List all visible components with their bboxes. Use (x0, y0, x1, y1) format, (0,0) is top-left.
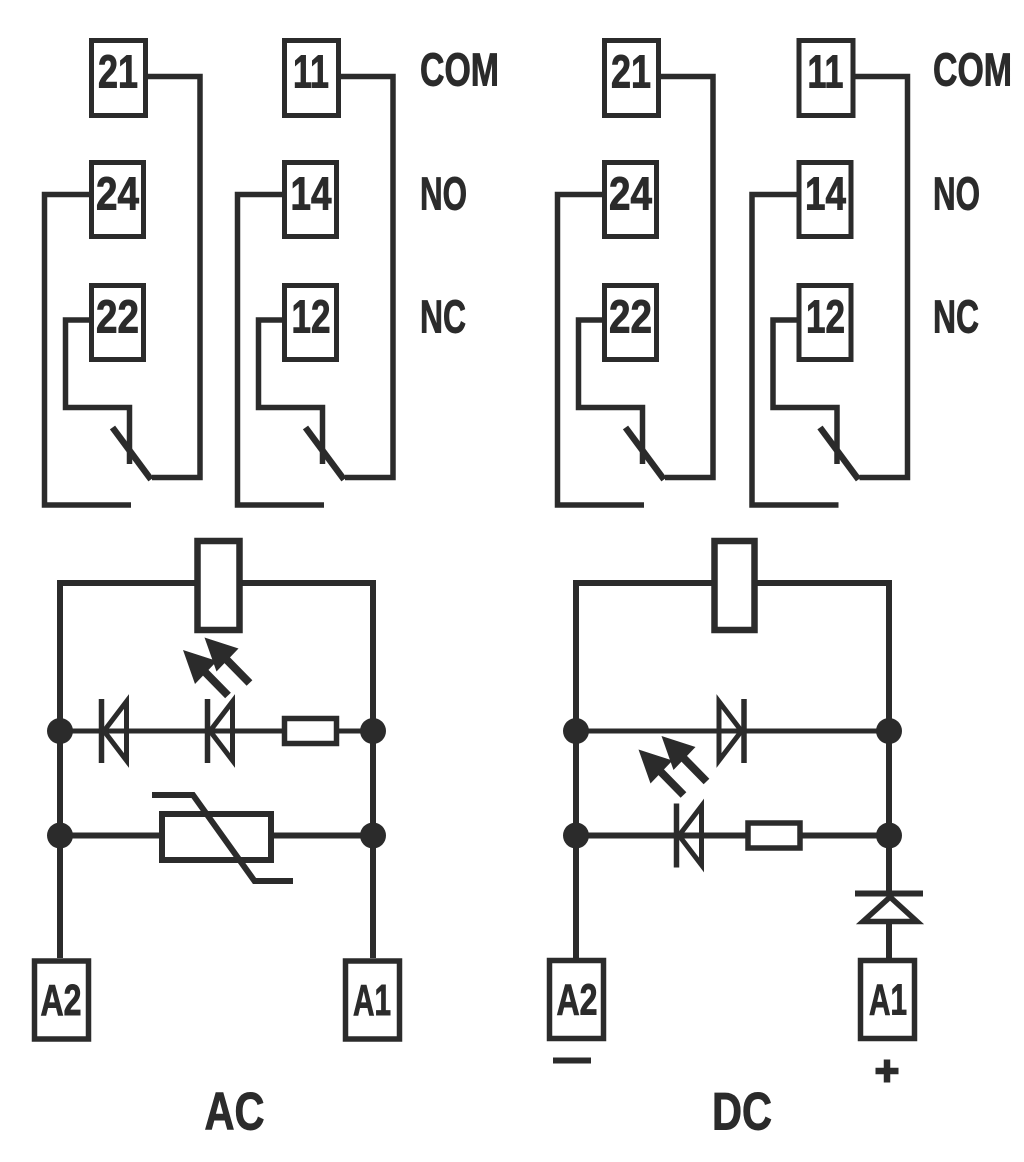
svg-text:24: 24 (609, 168, 652, 220)
svg-text:11: 11 (808, 46, 844, 98)
svg-text:AC: AC (205, 1083, 265, 1142)
svg-text:NC: NC (933, 291, 979, 343)
svg-text:A1: A1 (353, 976, 391, 1025)
svg-text:A2: A2 (41, 976, 82, 1025)
svg-text:COM: COM (420, 44, 499, 96)
svg-text:NC: NC (420, 291, 466, 343)
svg-text:A2: A2 (557, 976, 598, 1025)
svg-text:22: 22 (609, 291, 652, 343)
svg-text:12: 12 (292, 291, 331, 343)
svg-text:14: 14 (805, 168, 846, 220)
svg-text:12: 12 (806, 291, 845, 343)
svg-text:A1: A1 (869, 976, 907, 1025)
svg-text:NO: NO (933, 168, 980, 220)
svg-text:NO: NO (420, 168, 467, 220)
svg-text:21: 21 (611, 46, 651, 98)
svg-text:COM: COM (933, 44, 1012, 96)
svg-text:24: 24 (96, 168, 139, 220)
svg-text:22: 22 (96, 291, 139, 343)
svg-text:21: 21 (98, 46, 138, 98)
svg-text:14: 14 (291, 168, 332, 220)
svg-text:11: 11 (293, 46, 329, 98)
svg-text:DC: DC (712, 1083, 772, 1142)
